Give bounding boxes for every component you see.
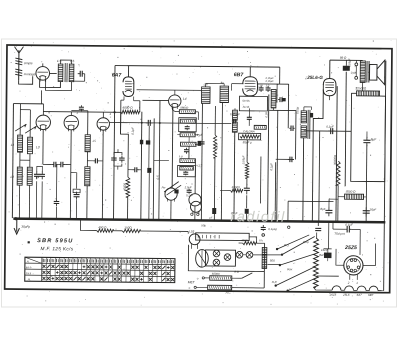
svg-text:6A7: 6A7 bbox=[112, 73, 123, 79]
wire avc bus top bbox=[115, 66, 280, 84]
capacitor blob 178 bbox=[174, 185, 193, 197]
wire bbox=[345, 72, 346, 186]
wire bbox=[277, 110, 278, 220]
svg-text:400.Ω: 400.Ω bbox=[98, 225, 107, 229]
svg-text:0,25: 0,25 bbox=[215, 143, 219, 149]
ground bbox=[14, 217, 30, 234]
junction dots bbox=[86, 218, 367, 223]
wire bbox=[384, 60, 387, 62]
transformer T3 winding B bbox=[301, 126, 307, 138]
svg-text:0,1µF: 0,1µF bbox=[326, 125, 334, 129]
svg-text:H.P.: H.P. bbox=[272, 280, 277, 284]
wire bbox=[177, 122, 202, 145]
wire right rail bbox=[384, 61, 386, 291]
svg-text:0,05µF: 0,05µF bbox=[241, 155, 245, 164]
tube V4 bbox=[97, 112, 111, 132]
wire bbox=[337, 131, 339, 161]
resistor RV5-1 bbox=[179, 106, 195, 114]
antenna tap coil 1 bbox=[15, 58, 33, 65]
svg-text:MET: MET bbox=[188, 280, 196, 284]
wire bbox=[206, 83, 225, 87]
speaker transformer bbox=[360, 61, 365, 83]
resistor vert 216 bbox=[213, 106, 219, 220]
wire bbox=[335, 86, 338, 221]
svg-text:50000: 50000 bbox=[180, 106, 188, 110]
wire grid top bbox=[127, 66, 129, 77]
resistor boxed v 272 bbox=[271, 90, 276, 108]
wire bbox=[232, 270, 253, 279]
svg-text:M.F. 125 Kc/s: M.F. 125 Kc/s bbox=[41, 246, 74, 251]
svg-text:SBR 595U: SBR 595U bbox=[37, 238, 73, 244]
capacitor C6b bbox=[79, 105, 84, 111]
wire bbox=[288, 201, 334, 221]
coil L4 bbox=[27, 167, 39, 185]
svg-text:0,1µF: 0,1µF bbox=[186, 193, 193, 197]
screen box 6B7 bbox=[239, 96, 267, 111]
capacitor bbox=[200, 140, 205, 145]
coil L1 bbox=[11, 135, 23, 152]
svg-text:25Z5: 25Z5 bbox=[344, 245, 357, 251]
svg-text:µF: µF bbox=[209, 215, 213, 219]
wire bbox=[87, 111, 88, 219]
capacitor C24 blob bbox=[321, 248, 332, 258]
wire bbox=[120, 112, 128, 177]
capacitor bbox=[232, 119, 237, 124]
wire bbox=[121, 96, 124, 134]
wire bbox=[101, 130, 104, 219]
heater labels bbox=[329, 293, 374, 297]
wire bbox=[19, 185, 29, 218]
paper speckle texture bbox=[9, 40, 392, 305]
wire bbox=[363, 243, 376, 265]
capacitor 8uF field bbox=[363, 137, 377, 147]
label 50u bbox=[201, 223, 206, 227]
coil L3 bbox=[27, 137, 39, 154]
wire bbox=[114, 149, 122, 170]
socket pins bbox=[347, 259, 360, 272]
label 25L6-G bbox=[306, 75, 323, 80]
svg-text:25Z5: 25Z5 bbox=[329, 293, 337, 297]
capacitor bbox=[289, 125, 295, 131]
transformer T1 primary bbox=[58, 64, 63, 82]
wire bbox=[269, 109, 296, 111]
svg-text:P.U.: P.U. bbox=[284, 243, 289, 247]
resistor RV5-5 bbox=[179, 154, 196, 162]
lamp box bbox=[196, 233, 250, 241]
wire bbox=[249, 237, 257, 243]
wire bbox=[188, 245, 264, 272]
wire bbox=[268, 95, 269, 221]
lamp 3 bbox=[213, 259, 220, 266]
label bbox=[243, 140, 252, 144]
wire bbox=[172, 107, 179, 111]
capacitor blob 216 bbox=[209, 208, 216, 220]
capacitor C23 bbox=[345, 223, 353, 233]
svg-text:CALORA: CALORA bbox=[243, 129, 255, 133]
label 0,006 bbox=[230, 112, 240, 116]
coil L6 bbox=[85, 167, 90, 186]
wire bbox=[141, 112, 142, 219]
component C dark bbox=[147, 168, 151, 220]
wire bbox=[323, 96, 329, 100]
wire bbox=[80, 220, 96, 230]
wire y128 bbox=[303, 131, 351, 221]
trimmer arrow L1 bbox=[15, 124, 26, 131]
capacitor bbox=[288, 157, 294, 163]
svg-text:50 Sh: 50 Sh bbox=[242, 99, 250, 103]
wire bbox=[249, 108, 252, 126]
svg-text:0,05: 0,05 bbox=[351, 71, 357, 75]
svg-text:6: 6 bbox=[48, 110, 50, 114]
label bbox=[266, 76, 275, 83]
capacitor C pot top bbox=[315, 228, 321, 230]
svg-text:50µ: 50µ bbox=[201, 223, 206, 227]
wire bbox=[316, 232, 318, 237]
capacitor C osc bbox=[145, 120, 152, 168]
svg-text:L3: L3 bbox=[36, 145, 40, 149]
valve voltage table bbox=[25, 257, 175, 282]
svg-text:2,0µF: 2,0µF bbox=[184, 185, 192, 189]
wire bbox=[159, 100, 160, 219]
wire bbox=[338, 144, 367, 221]
svg-text:25L6-G: 25L6-G bbox=[306, 75, 323, 80]
speaker terminals bbox=[351, 60, 358, 79]
wire main HT bus bbox=[13, 219, 385, 223]
svg-text:Pw: Pw bbox=[162, 185, 167, 189]
capacitor C21 bbox=[320, 207, 332, 217]
label 6B7 bbox=[234, 72, 245, 78]
svg-text:L1: L1 bbox=[11, 143, 15, 147]
transformer IF2 winding B bbox=[220, 81, 229, 103]
label 1.5 bbox=[57, 59, 75, 63]
wire bbox=[87, 160, 102, 162]
capacitor C3 bbox=[51, 162, 65, 168]
wire bbox=[153, 118, 169, 219]
svg-text:L.µ: L.µ bbox=[179, 154, 183, 158]
switch arm 4 bbox=[286, 277, 318, 293]
wiper wire bbox=[317, 275, 339, 277]
wire bbox=[259, 156, 261, 203]
label 6A7 bbox=[112, 73, 123, 79]
svg-text:o: o bbox=[189, 286, 191, 290]
svg-text:150Ω: 150Ω bbox=[124, 226, 132, 230]
label bbox=[303, 240, 324, 257]
label 25Z5 bbox=[344, 245, 357, 251]
wire line 121 bbox=[109, 121, 231, 124]
wire bbox=[174, 90, 176, 95]
resistor heater 150 bbox=[122, 226, 140, 233]
capacitor C blob bbox=[140, 140, 143, 145]
label bbox=[131, 127, 135, 135]
svg-text:30000Ω: 30000Ω bbox=[333, 154, 337, 165]
switch arm 1 bbox=[276, 235, 315, 257]
svg-text:5000 Ω: 5000 Ω bbox=[346, 190, 357, 194]
resistor 5000 bbox=[345, 190, 364, 200]
tube V5 bbox=[168, 95, 181, 109]
input jack PU bbox=[259, 225, 290, 243]
svg-text:R.B: R.B bbox=[234, 270, 239, 274]
wire bbox=[128, 169, 141, 171]
wire bbox=[188, 137, 195, 220]
wire bbox=[232, 84, 289, 92]
capacitor blob top bbox=[343, 58, 352, 71]
field box bbox=[351, 93, 386, 181]
antenna tap coil 2 bbox=[15, 69, 36, 76]
svg-text:6A-7: 6A-7 bbox=[26, 266, 32, 269]
resistor R16 bbox=[210, 272, 232, 281]
svg-text:Jw sh: Jw sh bbox=[242, 105, 249, 109]
antenna bbox=[14, 47, 23, 81]
svg-text:500: 500 bbox=[270, 259, 275, 263]
svg-text:0,05: 0,05 bbox=[264, 112, 268, 118]
wire bbox=[287, 84, 289, 128]
switch arm 3 bbox=[274, 266, 315, 287]
wire bbox=[246, 214, 248, 220]
diagonal pointer bbox=[162, 181, 182, 195]
parallel RC bbox=[179, 118, 197, 132]
wire bbox=[42, 130, 71, 219]
transformer T3 winding A bbox=[301, 111, 307, 123]
wire bbox=[303, 107, 312, 221]
svg-text:0,05µF: 0,05µF bbox=[347, 58, 351, 67]
capacitor C2 bbox=[34, 171, 45, 179]
tube 6A7 bbox=[123, 77, 134, 97]
tube 6B7 bbox=[243, 77, 258, 96]
wire bbox=[55, 164, 58, 218]
label MF bbox=[28, 241, 74, 251]
label bbox=[340, 56, 347, 60]
svg-text:0,1µF: 0,1µF bbox=[131, 127, 135, 135]
svg-text:L5: L5 bbox=[93, 139, 97, 143]
svg-text:0,5: 0,5 bbox=[156, 175, 160, 179]
wire bbox=[273, 84, 277, 111]
resistor RV5-4 bbox=[181, 141, 202, 147]
resistor RV5-3 bbox=[180, 133, 203, 137]
wire bbox=[40, 90, 42, 103]
coil 6B7 left A bbox=[232, 110, 237, 120]
svg-text:0,1µF: 0,1µF bbox=[269, 163, 273, 171]
coil 6B7 left B bbox=[232, 122, 237, 132]
svg-text:2: 2 bbox=[347, 281, 350, 285]
switch contact b bbox=[189, 286, 208, 290]
tube 25Z5 socket bbox=[344, 256, 363, 275]
wire bbox=[19, 76, 33, 84]
switch wafer bbox=[196, 250, 209, 268]
wire vert 223 bbox=[221, 103, 222, 220]
coil L5 bbox=[85, 135, 96, 152]
tube V1 bbox=[36, 66, 50, 81]
capacitor C4 bbox=[54, 198, 60, 206]
label MET bbox=[188, 280, 196, 284]
tube small above bus bbox=[190, 201, 201, 215]
svg-text:0,1µF: 0,1µF bbox=[345, 223, 353, 227]
tube L10 bbox=[189, 229, 200, 249]
wire bbox=[134, 97, 140, 111]
lamp panel box bbox=[205, 250, 235, 266]
svg-text:1: 1 bbox=[356, 281, 358, 285]
speaker body bbox=[369, 64, 377, 80]
trimmer arrow L3 bbox=[25, 126, 36, 133]
capacitor bbox=[184, 148, 189, 154]
label 40000 bbox=[123, 183, 127, 191]
capacitor C22 bbox=[363, 207, 377, 217]
wire bbox=[114, 66, 115, 219]
wire bbox=[36, 166, 42, 218]
svg-text:4µ: 4µ bbox=[221, 81, 225, 85]
svg-text:8,0µ: 8,0µ bbox=[303, 240, 309, 244]
capacitor C6 bbox=[93, 158, 99, 163]
wire bbox=[269, 162, 276, 220]
transformer T3 core bbox=[308, 110, 310, 139]
capacitor bbox=[278, 97, 286, 102]
socket leads bbox=[347, 274, 359, 285]
wire bbox=[201, 103, 202, 219]
svg-text:6A7: 6A7 bbox=[357, 293, 363, 297]
capacitor blob bbox=[231, 209, 249, 216]
wire bbox=[43, 104, 103, 118]
wire bbox=[61, 60, 72, 64]
tube V7 bbox=[189, 194, 201, 216]
wire bbox=[171, 107, 173, 219]
label bbox=[326, 125, 334, 129]
wire plate top bbox=[330, 60, 363, 79]
svg-text:89 Ω: 89 Ω bbox=[340, 56, 347, 60]
lamp 1 bbox=[213, 250, 220, 257]
wire bbox=[20, 104, 30, 138]
wire bbox=[246, 140, 248, 162]
wire bbox=[20, 152, 30, 167]
heater string bbox=[314, 286, 384, 291]
svg-text:25L6: 25L6 bbox=[342, 293, 350, 297]
svg-text:montage: montage bbox=[24, 72, 36, 76]
wire bbox=[338, 196, 366, 198]
svg-text:I7v: I7v bbox=[259, 238, 263, 242]
capacitor C x332 bbox=[328, 128, 335, 134]
svg-text:~: ~ bbox=[76, 242, 78, 246]
capacitor pair C9a bbox=[111, 156, 125, 163]
svg-text:Voix: Voix bbox=[287, 267, 293, 271]
svg-text:400Ω: 400Ω bbox=[241, 238, 248, 242]
wire bbox=[295, 111, 297, 160]
wire bbox=[71, 110, 87, 112]
wire bbox=[356, 79, 363, 91]
wire bbox=[113, 230, 122, 232]
svg-text:o: o bbox=[197, 276, 199, 280]
lamp 2 bbox=[224, 254, 231, 261]
svg-text:16µF: 16µF bbox=[369, 207, 376, 211]
table row labels bbox=[25, 259, 32, 281]
resistor R14 bbox=[239, 238, 265, 245]
wire bbox=[323, 223, 331, 262]
svg-text:simple: simple bbox=[24, 61, 33, 65]
resistor Rv bbox=[241, 155, 249, 178]
capacitor C mid bbox=[133, 167, 139, 172]
resistor zig 6B7 bbox=[239, 129, 261, 140]
resistor R17 bbox=[208, 285, 232, 290]
svg-text:4000-Ω: 4000-Ω bbox=[122, 106, 133, 110]
label bbox=[264, 112, 268, 118]
svg-text:L2: L2 bbox=[10, 175, 14, 179]
resistor heater 400 bbox=[97, 225, 114, 232]
transformer T1 secondary bbox=[69, 64, 74, 82]
label bbox=[156, 175, 160, 179]
svg-text:C.W: C.W bbox=[258, 83, 264, 87]
resistor R osc 4000 bbox=[121, 106, 140, 114]
capacitor C5 bbox=[73, 189, 80, 200]
wire bbox=[333, 223, 361, 255]
wire bbox=[40, 80, 61, 88]
labels PU bbox=[270, 243, 293, 284]
wire bbox=[317, 222, 319, 225]
switch contact a bbox=[197, 276, 210, 280]
wire bbox=[312, 84, 323, 221]
zig small bbox=[220, 185, 247, 192]
svg-text:40000: 40000 bbox=[232, 185, 240, 189]
svg-text:tSd: tSd bbox=[319, 253, 324, 257]
wire bbox=[140, 231, 188, 234]
wire bbox=[276, 159, 294, 162]
svg-text:L4: L4 bbox=[183, 97, 187, 101]
tube V2 bbox=[36, 110, 51, 131]
wire bbox=[12, 104, 13, 218]
wire bbox=[43, 63, 57, 73]
capacitor C6B7 bbox=[247, 115, 267, 129]
wire bbox=[231, 95, 235, 221]
speaker core bbox=[367, 61, 369, 83]
tube 25L6 bbox=[323, 78, 336, 95]
wire bbox=[336, 249, 344, 265]
resistor R11 30000 bbox=[333, 154, 341, 185]
svg-text:1: 1 bbox=[76, 111, 78, 115]
wire bbox=[46, 80, 72, 91]
svg-text:0,05µF: 0,05µF bbox=[266, 79, 275, 83]
border frame bbox=[2, 39, 397, 307]
lamp 4 bbox=[236, 251, 243, 258]
wire bbox=[70, 173, 76, 219]
svg-text:radiofil: radiofil bbox=[230, 209, 286, 226]
label bbox=[295, 106, 299, 113]
svg-text:6B7: 6B7 bbox=[234, 72, 245, 78]
svg-text:8µF: 8µF bbox=[371, 137, 378, 141]
parallel RC 2 bbox=[178, 163, 203, 177]
lamp 5 bbox=[246, 252, 253, 259]
transformer T1 core bbox=[65, 63, 67, 82]
label SBR 595U bbox=[37, 238, 78, 246]
resistor R osc cath bbox=[126, 177, 130, 219]
svg-text:A.: A. bbox=[26, 259, 30, 263]
transformer IF2 winding A bbox=[201, 82, 210, 103]
svg-text:30µFp: 30µFp bbox=[21, 225, 30, 229]
label bbox=[334, 232, 345, 236]
wire bbox=[235, 253, 281, 256]
wire grid bbox=[142, 94, 168, 100]
wire bbox=[249, 67, 251, 77]
svg-text:25L6: 25L6 bbox=[25, 272, 32, 275]
wire bbox=[226, 288, 265, 295]
wire bbox=[329, 199, 338, 207]
capacitor blob T3 bbox=[310, 113, 314, 118]
field coil resistor bbox=[355, 86, 380, 96]
svg-text:22500Ω: 22500Ω bbox=[355, 86, 367, 90]
capacitor C1 bbox=[74, 71, 85, 82]
svg-text:1.0: 1.0 bbox=[266, 83, 270, 87]
wire bbox=[246, 178, 248, 208]
speaker cone bbox=[377, 60, 385, 85]
switch arm 2 bbox=[267, 254, 314, 267]
label L4 bbox=[183, 97, 187, 101]
wire bbox=[366, 131, 368, 137]
schematic border bbox=[5, 45, 392, 293]
